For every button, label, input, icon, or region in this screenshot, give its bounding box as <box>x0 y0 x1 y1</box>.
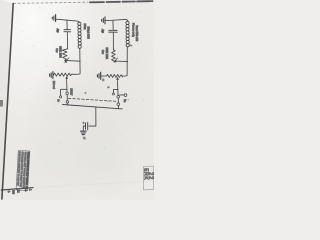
left edge dark smudge <box>0 100 3 107</box>
wire: R3 bottom to L2 line <box>114 60 128 63</box>
ground GND5 (bottom) <box>81 131 87 135</box>
potentiometer R2 (horizontal zigzag) <box>54 73 75 76</box>
speck near Rx <box>128 99 129 100</box>
plus label of C3 <box>82 122 84 124</box>
wire: C1 bottom lead <box>66 32 68 49</box>
scanner margin strip left of page border <box>0 0 13 200</box>
inductor L2 (coil circle chain) <box>126 21 129 47</box>
page left border <box>2 4 13 200</box>
title block row line b <box>22 151 24 191</box>
switch contact circle S2b <box>117 103 120 106</box>
small speck near right switch <box>107 101 108 102</box>
wire: stub to Rx terminal <box>120 94 125 96</box>
wire: left branch to terminal <box>61 89 67 95</box>
solid bus line <box>63 105 123 109</box>
wire: C1 top lead <box>66 20 68 29</box>
resistor R3 (vertical zigzag) <box>112 50 116 61</box>
variable arrow on R3 <box>114 58 118 62</box>
wire: R1 bottom to coil bottom line <box>65 59 80 62</box>
wire: L2 bottom vertical <box>122 47 127 76</box>
wire: section2 top rail <box>109 19 128 21</box>
ERK 22 box bottom right <box>143 166 154 190</box>
terminal circle right-branch <box>112 93 114 95</box>
ground GND3 (right section top) <box>102 17 109 24</box>
wire: right branch <box>113 90 118 93</box>
ground GND2 (left of R2) <box>50 72 54 79</box>
page bottom border (left part) <box>1 188 33 190</box>
wire: C3 to ground <box>83 126 85 131</box>
title block row line c <box>25 151 27 191</box>
switch contact circle S2a <box>117 96 120 99</box>
ground GND1 (left section top) <box>52 15 61 22</box>
variable arrow on R1 <box>65 58 69 63</box>
wiper arrow of R4 <box>116 77 118 82</box>
paper background <box>0 0 154 200</box>
paper speckles <box>22 8 144 161</box>
terminal circle Rx <box>124 94 127 97</box>
dashed gang line <box>68 98 117 101</box>
capacitor C3 plates <box>86 122 88 129</box>
wire: switch pole line (left) <box>66 82 69 105</box>
junction dot at L1/wire <box>79 61 80 62</box>
junction dot at L2/wire <box>127 61 128 62</box>
terminal circle left <box>60 96 62 98</box>
inductor L1 (coil circle chain) <box>78 22 81 48</box>
wire: C2 top lead <box>112 21 114 30</box>
switch contact circle S1a <box>66 92 69 95</box>
capacitor C2 <box>109 30 118 32</box>
switch contact circle S1b <box>66 101 69 104</box>
page top edge line <box>14 1 153 3</box>
title block box <box>16 150 30 190</box>
wire: section1 top rail <box>61 20 79 23</box>
wire: bypass cap drop from bus <box>89 107 96 126</box>
resistor R1 (vertical zigzag, offset left) <box>62 49 67 61</box>
potentiometer R4 (horizontal zigzag) <box>101 74 122 77</box>
wiper arrow of R2 <box>66 76 68 82</box>
capacitor C1 <box>64 30 71 32</box>
ground GND4 (left of R4) <box>97 72 101 79</box>
wire: C2 bottom lead <box>112 33 114 50</box>
wire: L1 bottom vertical <box>74 48 80 74</box>
wire: switch pole line (right) <box>117 83 120 109</box>
page bottom border faint continuation <box>33 181 151 188</box>
title block row line a <box>19 151 21 191</box>
